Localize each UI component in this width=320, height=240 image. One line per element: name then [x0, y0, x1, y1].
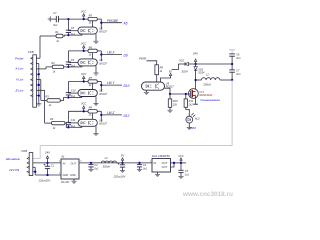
svg-text:330uH: 330uH: [103, 165, 111, 169]
wire pin8 VCC U5: [91, 21, 93, 27]
svg-text:OUT: OUT: [162, 161, 168, 165]
ground (A1): [73, 179, 75, 181]
svg-text:R8: R8: [89, 106, 93, 110]
svg-text:D10: D10: [124, 84, 130, 88]
diode VD2 SS34: [188, 63, 195, 65]
svg-text:D9: D9: [124, 53, 128, 57]
ground (left of C7): [49, 17, 51, 22]
svg-text:DA1 L4940P50: DA1 L4940P50: [152, 154, 170, 158]
svg-text:6N137: 6N137: [99, 92, 107, 96]
svg-text:IRLML6402: IRLML6402: [199, 94, 213, 97]
svg-text:C11: C11: [71, 118, 76, 122]
wire output node U5: [100, 19, 102, 29]
pin arrow X3/B: [27, 157, 29, 159]
ground U7: [95, 97, 97, 104]
svg-text:R9: R9: [160, 65, 164, 69]
wire VCC rail U6: [67, 51, 69, 60]
pin arrow X1/B: [31, 89, 33, 91]
svg-text:X-Lim: X-Lim: [14, 66, 24, 70]
svg-text:C9: C9: [71, 58, 75, 62]
wire output node U8: [100, 111, 102, 121]
svg-text:6N137: 6N137: [99, 30, 107, 34]
ground (C2): [88, 168, 93, 170]
svg-text:2k2: 2k2: [188, 103, 194, 107]
svg-text:VCC: VCC: [81, 41, 87, 45]
wire LED input U5: [68, 34, 82, 36]
capacitor C5 0u1: [180, 163, 182, 170]
ground (C5): [178, 175, 183, 177]
svg-text:www.cnc3018.ru: www.cnc3018.ru: [182, 191, 233, 198]
svg-text:Probe: Probe: [15, 56, 24, 60]
svg-text:C10: C10: [71, 88, 76, 92]
svg-text:PWM: PWM: [139, 57, 147, 61]
resistor R4 1k (Z-Lim input): [51, 121, 65, 124]
wire VCC rail U5: [67, 19, 69, 28]
ground U5: [95, 34, 97, 41]
wire R3 to C10 node: [60, 98, 68, 101]
ground (C3): [120, 170, 125, 172]
ground (DA1): [157, 172, 159, 174]
svg-text:SS34: SS34: [198, 72, 205, 75]
svg-text:LM.Z: LM.Z: [107, 111, 115, 115]
capacitor C1 220ux35V: [47, 163, 49, 166]
pin arrow X1/B: [31, 62, 33, 64]
wire Y-Lim pin5 to R3: [36, 79, 40, 81]
capacitor C7b: [231, 64, 233, 70]
resistor R9 1k: [155, 65, 159, 75]
wire 24V to C6: [196, 63, 233, 65]
svg-text:5V: 5V: [169, 69, 172, 73]
svg-text:VCC: VCC: [81, 10, 87, 14]
resistor R11 2k2: [185, 94, 187, 99]
wire R1 to C8 node: [63, 34, 68, 37]
svg-text:0u1: 0u1: [53, 23, 58, 27]
power bar (top of C6): [229, 49, 235, 51]
pin arrow X1/B: [31, 95, 33, 97]
svg-text:DC-DC: DC-DC: [61, 180, 69, 184]
wire 24V PS feed (gray): [33, 80, 232, 158]
wire LED input U6: [68, 66, 82, 68]
wire ground bus X1/B even pins: [36, 63, 38, 65]
resistor R1 1k (Probe input): [56, 34, 63, 38]
DC-DC module A1: [61, 159, 79, 179]
ground (HL2): [188, 123, 190, 127]
pin arrow X3/B: [27, 162, 29, 164]
wire output node U6: [100, 51, 102, 61]
inductor L2 330uH: [196, 79, 202, 81]
svg-text:OUT: OUT: [70, 161, 76, 165]
wire VCC rail U7: [67, 82, 69, 91]
wire R2 to C9 node: [64, 66, 69, 68]
terminal bar (VT1 source): [193, 103, 198, 105]
resistor R8 pull-up 1k: [88, 110, 97, 113]
ground U8: [95, 126, 97, 133]
svg-text:Шпиндель: Шпиндель: [6, 157, 21, 161]
wire VCC rail U8: [67, 111, 69, 120]
pin arrow X1/B: [31, 84, 33, 86]
svg-text:Гальваноразвязка: Гальваноразвязка: [200, 100, 220, 102]
resistor R6 pull-up 1k: [88, 49, 97, 52]
svg-text:6N137: 6N137: [99, 122, 107, 126]
ground (U9 cathode): [146, 90, 148, 92]
svg-text:PROBE: PROBE: [107, 19, 119, 23]
node 24V rail: [194, 63, 196, 65]
wire R4 to C11 node: [65, 123, 69, 127]
ground (R10): [169, 107, 171, 110]
wire gate node: [170, 93, 189, 95]
svg-text:R6: R6: [89, 45, 93, 49]
power flag 5V (U9 collector): [161, 76, 171, 82]
svg-text:R4: R4: [50, 117, 54, 121]
wire 24V input: [33, 162, 61, 164]
svg-text:IN: IN: [63, 161, 66, 165]
svg-text:R11: R11: [189, 99, 194, 103]
svg-text:VCC: VCC: [178, 155, 183, 158]
svg-text:C7: C7: [53, 11, 57, 15]
wire PWM to R9: [147, 61, 157, 65]
resistor R2 1k (X-Lim input): [52, 65, 64, 68]
svg-text:A5: A5: [123, 22, 128, 26]
diode VD3 SS34: [195, 64, 197, 67]
wire LED input U7: [68, 97, 82, 99]
svg-text:X1/B: X1/B: [27, 50, 34, 54]
svg-text:VD2: VD2: [179, 59, 184, 62]
svg-text:R3: R3: [45, 94, 49, 98]
svg-text:0u1: 0u1: [94, 168, 99, 171]
wire pin8 VCC U6: [91, 53, 93, 59]
svg-text:R1: R1: [55, 30, 59, 34]
wire Z-Lim pin7 to R4: [36, 89, 44, 91]
svg-text:Z-Lim: Z-Lim: [14, 88, 23, 92]
connector X1/B: [33, 55, 37, 107]
wire R11 to LED: [186, 107, 190, 116]
junction C8/C7 node: [67, 18, 69, 20]
pin arrow X1/B: [31, 73, 33, 75]
pin arrow X1/B: [31, 57, 33, 59]
power flag VCC (DA1 out): [180, 160, 182, 163]
svg-text:R7: R7: [89, 76, 93, 80]
node C6: [231, 63, 233, 65]
svg-text:3u3: 3u3: [236, 57, 241, 60]
connector X3/B: [29, 153, 33, 176]
svg-text:VCC: VCC: [81, 102, 87, 106]
wire pin8 VCC U8: [91, 113, 93, 119]
node VT1 drain: [194, 79, 196, 81]
svg-text:VCC: VCC: [81, 72, 87, 76]
wire output node U7: [100, 82, 102, 92]
svg-text:HL2: HL2: [195, 116, 200, 120]
svg-text:OUT: OUT: [162, 165, 168, 169]
wire DA1 output: [171, 162, 187, 164]
svg-text:24V: 24V: [192, 52, 199, 56]
svg-text:6N137: 6N137: [99, 61, 107, 65]
pin arrow X1/B: [31, 68, 33, 70]
capacitor C9 0u1: [67, 59, 69, 62]
svg-text:0u1: 0u1: [143, 168, 148, 171]
svg-text:10k: 10k: [173, 103, 178, 107]
power flag VCC U6: [83, 48, 85, 51]
svg-text:3u3: 3u3: [236, 73, 241, 76]
capacitor C4 0u1: [138, 162, 140, 164]
svg-text:330uH: 330uH: [203, 83, 211, 87]
svg-text:A1: A1: [60, 155, 65, 159]
svg-text:GND: GND: [63, 174, 69, 177]
svg-text:Y-Lim: Y-Lim: [16, 77, 24, 81]
svg-text:24V PS: 24V PS: [8, 168, 19, 172]
node C7b/L2: [231, 79, 233, 81]
resistor R7 pull-up 1k: [88, 80, 97, 83]
resistor R3 1k (Y-Lim input): [47, 99, 61, 102]
capacitor C3 220ux16V: [122, 163, 124, 165]
wire 5V rail: [79, 162, 152, 164]
ground U6: [95, 66, 97, 73]
capacitor C6: [229, 53, 235, 55]
svg-text:24V: 24V: [44, 151, 51, 155]
power flag VCC U5: [83, 16, 85, 19]
capacitor C11 0u1: [67, 120, 69, 123]
wire U9 emitter to gate node: [165, 88, 171, 94]
wire LED input U8: [68, 126, 82, 128]
capacitor C8 0u1: [67, 28, 69, 31]
svg-text:0u1: 0u1: [185, 173, 190, 176]
svg-text:GND: GND: [70, 174, 76, 177]
resistor R10 10k: [169, 94, 171, 99]
svg-text:X3/B: X3/B: [20, 149, 27, 153]
svg-text:R5: R5: [89, 14, 93, 18]
wire GND input: [33, 166, 35, 168]
svg-text:LM.Y: LM.Y: [107, 81, 115, 85]
power flag VCC U7: [83, 79, 85, 82]
svg-text:220ux16V: 220ux16V: [113, 174, 126, 178]
svg-text:D12: D12: [124, 114, 130, 118]
inductor L3 330uH: [101, 161, 116, 163]
optocoupler U8 6N137: [78, 119, 97, 126]
svg-text:IN: IN: [153, 161, 156, 165]
regulator DA1 L4940P50: [152, 159, 171, 173]
svg-text:C8: C8: [71, 26, 75, 30]
pin arrow X3/B: [27, 171, 29, 173]
pin arrow X1/B: [31, 79, 33, 81]
ground (X1/B common): [36, 103, 41, 105]
capacitor C2 0u1: [90, 162, 92, 164]
power flag 5V: [121, 162, 123, 164]
wire R9 to U9 anode: [156, 75, 158, 82]
optocoupler U9 PC817: [142, 82, 165, 90]
ground (C4): [137, 169, 142, 171]
wire Probe pin1 to R1: [36, 57, 40, 59]
svg-text:SS34: SS34: [182, 70, 189, 73]
power flag VCC U8: [83, 108, 85, 111]
svg-text:R2: R2: [51, 61, 55, 65]
wire X-Lim pin3 to R2: [36, 68, 46, 70]
wire pin8 VCC U7: [91, 83, 93, 89]
svg-text:R10: R10: [173, 99, 178, 103]
optocoupler U5 6N137: [78, 27, 97, 34]
capacitor C7 0u1 (top-left): [51, 18, 56, 20]
transistor VT1 IRLML6402: [195, 80, 197, 92]
optocoupler U6 6N137: [78, 59, 97, 66]
svg-text:LM.X: LM.X: [107, 51, 115, 55]
capacitor C10 0u1: [67, 90, 69, 93]
resistor R5 pull-up 1k: [88, 17, 97, 20]
svg-text:220ux35V: 220ux35V: [38, 179, 51, 183]
optocoupler U7 6N137: [78, 90, 97, 97]
LED HL2: [186, 116, 193, 123]
pin arrow X3/B: [27, 166, 29, 168]
